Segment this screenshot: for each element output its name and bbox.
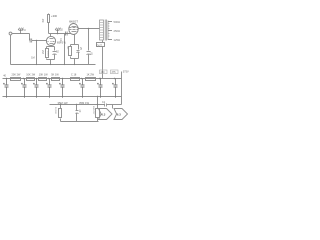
svg-text:375V: 375V [123,71,129,74]
svg-text:C 18: C 18 [71,73,77,76]
svg-text:35M 1W: 35M 1W [58,101,68,105]
svg-text:6K6GT: 6K6GT [69,20,78,24]
svg-text:10K 1W: 10K 1W [26,73,36,76]
svg-text:35M 1W: 35M 1W [79,101,89,105]
svg-text:3C: 3C [66,46,69,49]
svg-text:6.3: 6.3 [101,113,105,117]
svg-text:2000: 2000 [46,51,48,57]
svg-text:.05: .05 [90,52,93,56]
svg-text:40: 40 [78,110,81,113]
svg-text:20K 2W: 20K 2W [12,73,22,76]
svg-text:250Ω: 250Ω [114,29,121,33]
svg-text:40: 40 [3,75,6,78]
svg-text:50,000: 50,000 [54,107,56,114]
svg-text:125Ω: 125Ω [114,38,121,42]
svg-text:+300: +300 [51,14,58,18]
svg-text:1K 2W: 1K 2W [87,73,95,76]
svg-text:25: 25 [79,47,83,50]
svg-text:C1: C1 [102,101,106,104]
svg-text:PU: PU [22,29,26,32]
svg-text:6SG7GT: 6SG7GT [92,106,94,115]
svg-text:.02: .02 [59,28,63,31]
svg-text:5K 1W: 5K 1W [51,73,59,76]
svg-text:2M: 2M [41,50,45,54]
svg-text:375: 375 [112,71,117,74]
svg-text:.1M: .1M [41,18,45,22]
svg-text:OUT: OUT [96,43,102,47]
svg-text:25: 25 [56,50,60,53]
svg-text:10K 1W: 10K 1W [39,73,49,76]
svg-text:450: 450 [101,71,106,74]
svg-text:6.3: 6.3 [117,113,121,117]
svg-text:1M: 1M [31,56,35,60]
svg-text:500Ω: 500Ω [114,20,121,24]
